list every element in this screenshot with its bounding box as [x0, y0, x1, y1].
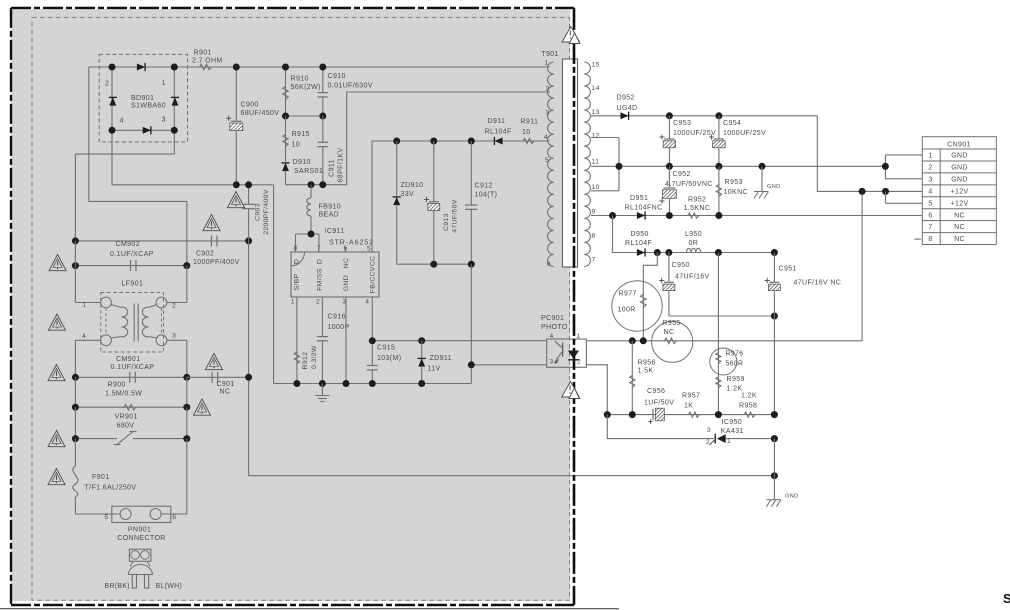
svg-text:104(T): 104(T) [475, 192, 498, 199]
svg-text:1000PF/400V: 1000PF/400V [193, 259, 240, 266]
svg-text:R977: R977 [619, 291, 637, 298]
svg-text:D950: D950 [631, 231, 649, 238]
svg-text:C910: C910 [328, 73, 346, 80]
svg-text:SARS01: SARS01 [294, 168, 323, 175]
svg-text:100R: 100R [618, 307, 636, 314]
svg-text:C900: C900 [241, 102, 259, 109]
svg-text:0.1UF/XCAP: 0.1UF/XCAP [111, 364, 155, 371]
svg-text:T901: T901 [541, 51, 558, 58]
svg-text:3: 3 [928, 176, 932, 183]
svg-text:6: 6 [172, 514, 176, 521]
svg-text:ZD910: ZD910 [401, 182, 424, 189]
svg-text:4: 4 [928, 188, 932, 195]
svg-text:LF901: LF901 [122, 281, 144, 288]
svg-text:0R: 0R [689, 240, 699, 247]
svg-text:4: 4 [365, 298, 369, 305]
svg-text:3: 3 [545, 110, 549, 117]
svg-text:10KNC: 10KNC [724, 189, 748, 196]
svg-text:7: 7 [317, 245, 321, 252]
svg-text:C951: C951 [779, 266, 797, 273]
svg-text:R901: R901 [194, 50, 212, 57]
svg-text:C952: C952 [673, 171, 691, 178]
svg-text:D: D [293, 259, 300, 264]
svg-text:11V: 11V [428, 366, 441, 373]
svg-text:3: 3 [707, 427, 711, 434]
svg-text:1.2K: 1.2K [727, 386, 743, 393]
svg-text:6: 6 [547, 261, 551, 268]
svg-text:T/F1.6AL/250V: T/F1.6AL/250V [85, 485, 137, 492]
svg-text:UG4D: UG4D [617, 105, 638, 112]
svg-text:NC: NC [954, 224, 965, 231]
svg-text:103(M): 103(M) [377, 355, 401, 362]
svg-text:PC901: PC901 [541, 315, 564, 322]
svg-text:1: 1 [727, 438, 731, 445]
svg-text:GND: GND [951, 165, 968, 172]
svg-text:GND: GND [343, 275, 350, 291]
svg-text:GND: GND [785, 494, 798, 500]
svg-text:C915: C915 [377, 344, 395, 351]
svg-text:C901: C901 [217, 381, 235, 388]
svg-text:68UF/450V: 68UF/450V [241, 110, 280, 117]
svg-text:C913: C913 [443, 213, 450, 231]
svg-text:1: 1 [928, 153, 932, 160]
svg-text:GND: GND [767, 184, 780, 190]
svg-text:+12V: +12V [951, 188, 969, 195]
svg-text:33V: 33V [401, 191, 415, 198]
svg-text:C912: C912 [475, 183, 493, 190]
svg-text:0.01UF/630V: 0.01UF/630V [328, 83, 373, 90]
svg-text:1UF/50V: 1UF/50V [644, 399, 674, 406]
svg-text:10: 10 [292, 141, 301, 148]
svg-text:1: 1 [291, 298, 295, 305]
svg-text:CM902: CM902 [116, 241, 140, 248]
svg-text:RL104F: RL104F [625, 240, 653, 247]
svg-text:3: 3 [162, 117, 166, 124]
svg-text:9: 9 [592, 209, 596, 216]
svg-text:C902: C902 [196, 250, 214, 257]
svg-text:5: 5 [545, 157, 549, 164]
svg-text:0.3/2W: 0.3/2W [311, 345, 318, 369]
svg-text:5: 5 [928, 200, 932, 207]
svg-text:560R: 560R [726, 361, 744, 368]
svg-text:NC: NC [343, 258, 350, 269]
svg-text:C950: C950 [672, 262, 690, 269]
svg-text:KA431: KA431 [721, 428, 744, 435]
svg-text:3: 3 [550, 359, 554, 366]
svg-text:R959: R959 [727, 376, 745, 383]
svg-text:8: 8 [592, 233, 596, 240]
svg-text:R957: R957 [682, 392, 700, 399]
svg-text:ZD911: ZD911 [430, 355, 452, 362]
svg-text:S1WBA60: S1WBA60 [131, 103, 166, 110]
svg-text:FB/CCVCC: FB/CCVCC [369, 256, 376, 294]
svg-text:4: 4 [550, 333, 554, 340]
svg-text:C916: C916 [328, 313, 346, 320]
svg-text:FB910: FB910 [319, 204, 342, 211]
svg-text:8: 8 [928, 236, 932, 243]
svg-text:R912: R912 [302, 352, 309, 370]
svg-text:D951: D951 [630, 195, 648, 202]
svg-text:2: 2 [545, 85, 549, 92]
svg-text:BL(WH): BL(WH) [156, 583, 183, 590]
svg-text:FM/SS: FM/SS [317, 268, 324, 291]
svg-text:D: D [317, 259, 324, 264]
svg-text:NC: NC [954, 212, 965, 219]
svg-text:4: 4 [120, 118, 124, 125]
svg-text:2: 2 [172, 302, 176, 309]
svg-text:1: 1 [577, 333, 581, 340]
svg-text:VR901: VR901 [115, 414, 138, 421]
svg-text:IC911: IC911 [325, 228, 345, 235]
svg-text:680V: 680V [117, 422, 135, 429]
svg-text:2: 2 [105, 80, 109, 87]
svg-text:R956: R956 [638, 360, 656, 367]
svg-text:NC: NC [954, 236, 965, 243]
svg-text:PN901: PN901 [128, 527, 151, 534]
svg-text:1K: 1K [684, 403, 693, 410]
svg-text:D910: D910 [293, 159, 311, 166]
svg-text:2: 2 [316, 298, 320, 305]
svg-text:L950: L950 [685, 231, 702, 238]
svg-text:IC950: IC950 [722, 419, 743, 426]
svg-text:F901: F901 [92, 474, 109, 481]
svg-text:10: 10 [592, 184, 600, 191]
svg-text:56K(2W): 56K(2W) [291, 84, 321, 91]
svg-text:5: 5 [367, 246, 371, 253]
svg-text:R955: R955 [662, 320, 680, 327]
svg-text:NC: NC [220, 389, 231, 396]
svg-text:S: S [1003, 591, 1010, 606]
svg-text:D952: D952 [617, 95, 635, 102]
svg-text:GND: GND [951, 176, 968, 183]
svg-text:1: 1 [82, 302, 86, 309]
svg-text:PHOTO: PHOTO [541, 324, 568, 331]
svg-text:1: 1 [162, 80, 166, 87]
svg-text:4: 4 [82, 333, 86, 340]
svg-text:S/BP: S/BP [293, 273, 300, 290]
svg-text:RL104F: RL104F [485, 129, 513, 136]
svg-text:C953: C953 [673, 120, 691, 127]
svg-text:3: 3 [172, 333, 176, 340]
svg-text:R900: R900 [108, 382, 126, 389]
svg-text:68PF/1KV: 68PF/1KV [338, 148, 345, 183]
svg-text:8: 8 [294, 245, 298, 252]
svg-text:CONNECTOR: CONNECTOR [117, 535, 165, 542]
svg-text:12: 12 [592, 133, 600, 140]
svg-text:R976: R976 [726, 351, 744, 358]
svg-text:C911: C911 [329, 159, 336, 177]
svg-text:6: 6 [344, 245, 348, 252]
svg-text:1.2K: 1.2K [741, 393, 757, 400]
svg-text:1.5KNC: 1.5KNC [684, 205, 711, 212]
svg-text:15: 15 [592, 62, 600, 69]
svg-text:7: 7 [592, 257, 596, 264]
svg-text:6: 6 [928, 212, 932, 219]
svg-text:11: 11 [592, 159, 600, 166]
svg-text:1000UF/25V: 1000UF/25V [723, 130, 766, 137]
svg-text:R952: R952 [688, 196, 706, 203]
svg-text:2.7 OHM: 2.7 OHM [192, 58, 223, 65]
svg-text:BR(BK): BR(BK) [105, 583, 130, 590]
svg-text:2: 2 [928, 165, 932, 172]
svg-text:R953: R953 [725, 179, 743, 186]
svg-text:2200PF/400V: 2200PF/400V [263, 189, 270, 235]
svg-text:NC: NC [664, 329, 675, 336]
svg-text:47UF/16V NC: 47UF/16V NC [794, 279, 842, 286]
svg-text:CM901: CM901 [116, 356, 140, 363]
svg-text:RL104FNC: RL104FNC [625, 205, 663, 212]
svg-text:BD901: BD901 [131, 95, 154, 102]
svg-text:C903: C903 [255, 203, 262, 221]
svg-text:R910: R910 [291, 76, 309, 83]
svg-text:BEAD: BEAD [319, 212, 340, 219]
svg-text:1.5M/0.5W: 1.5M/0.5W [105, 391, 142, 398]
svg-text:13: 13 [592, 109, 600, 116]
svg-text:1.5K: 1.5K [638, 368, 654, 375]
svg-text:4: 4 [544, 134, 548, 141]
svg-text:D911: D911 [488, 118, 506, 125]
svg-text:R911: R911 [521, 119, 539, 126]
svg-text:14: 14 [592, 85, 600, 92]
svg-text:10: 10 [522, 129, 531, 136]
svg-text:1: 1 [544, 60, 548, 67]
svg-text:47UF/50V: 47UF/50V [452, 199, 459, 233]
svg-text:47UF/16V: 47UF/16V [675, 274, 710, 281]
svg-text:R915: R915 [292, 131, 310, 138]
svg-text:0.1UF/XCAP: 0.1UF/XCAP [110, 251, 154, 258]
svg-text:2: 2 [706, 439, 710, 446]
svg-text:1000UF/25V: 1000UF/25V [673, 130, 716, 137]
svg-text:7: 7 [928, 224, 932, 231]
svg-text:R958: R958 [739, 403, 757, 410]
svg-text:+12V: +12V [951, 200, 969, 207]
svg-text:5: 5 [104, 514, 108, 521]
svg-text:C954: C954 [723, 120, 741, 127]
svg-text:C956: C956 [647, 388, 665, 395]
svg-text:GND: GND [951, 153, 968, 160]
svg-text:4.7UF/50VNC: 4.7UF/50VNC [665, 181, 713, 188]
svg-text:CN901: CN901 [947, 141, 971, 148]
